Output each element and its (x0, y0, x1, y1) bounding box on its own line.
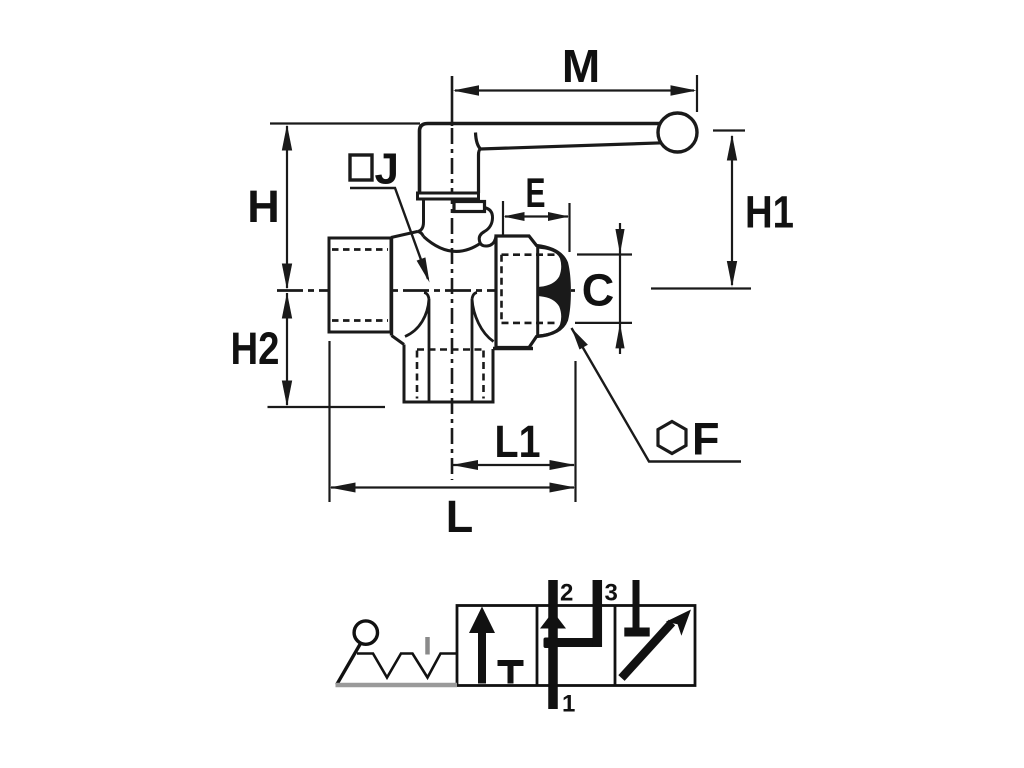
schematic lever arm (337, 644, 361, 685)
dimension C (575, 223, 632, 354)
handle ball end (658, 113, 697, 152)
left port body (329, 238, 391, 332)
nut thread dashed box (502, 255, 559, 323)
right port union nut (496, 236, 569, 348)
svg-text:L1: L1 (495, 416, 541, 467)
bottom port outline (404, 345, 493, 403)
dimension H1 (651, 131, 794, 289)
left port thread dashed bottom (332, 319, 388, 322)
stem nut block (454, 202, 485, 212)
body left edge (390, 237, 393, 336)
schematic valve boxes (457, 606, 695, 686)
svg-text:1: 1 (562, 691, 575, 718)
centerline vertical (stem axis) (451, 76, 454, 480)
schematic box2 junction tab (544, 638, 551, 649)
schematic box3 diagonal arrow (622, 623, 673, 679)
bonnet neck left (418, 199, 424, 232)
body step under nut (493, 347, 533, 350)
svg-text:J: J (375, 145, 399, 194)
dimension M (453, 40, 697, 112)
valve handle lever (420, 124, 664, 194)
svg-text:H: H (247, 181, 280, 232)
svg-text:F: F (692, 414, 720, 465)
body lower-left chamfer (392, 336, 405, 345)
body top-left slope (391, 232, 418, 238)
dimension L1 (452, 361, 576, 502)
svg-text:3: 3 (605, 580, 618, 607)
schematic box2 main line port 2-1 (548, 580, 558, 709)
label J with square symbol (350, 145, 430, 283)
centerline horizontal (port axis) (277, 289, 575, 292)
schematic box1 blocked port T (498, 660, 524, 666)
svg-text:L: L (446, 491, 474, 542)
schematic box2 branch to port 3 (553, 638, 602, 647)
svg-text:C: C (582, 265, 615, 316)
label F with hex symbol (572, 328, 742, 465)
packing gland curl (479, 208, 496, 247)
schematic detent zigzag (357, 654, 457, 678)
bottom port bore left (405, 293, 429, 403)
ball top arc (424, 237, 482, 252)
dimension H2 (231, 293, 386, 408)
svg-text:E: E (526, 169, 546, 216)
schematic lever actuator circle (354, 621, 377, 644)
cusp into ball arc (418, 232, 424, 237)
schematic box3 blocked port (633, 580, 640, 628)
svg-text:H2: H2 (231, 323, 280, 374)
svg-text:H1: H1 (745, 187, 794, 238)
bottom port bore right (472, 293, 494, 403)
schematic box1 flow arrow (478, 630, 486, 684)
svg-text:2: 2 (560, 580, 573, 607)
schematic ground base (336, 683, 458, 688)
dimension E (503, 169, 570, 252)
bottom port thread dashes (417, 351, 484, 399)
left port thread dashed top (332, 248, 388, 251)
nut chamfer shading (537, 246, 570, 337)
stem flange (418, 193, 479, 199)
svg-text:M: M (562, 40, 600, 92)
dimension H (247, 124, 420, 290)
schematic detent pin (425, 637, 430, 655)
dimension L (330, 341, 576, 542)
nut hex divider (536, 246, 539, 337)
